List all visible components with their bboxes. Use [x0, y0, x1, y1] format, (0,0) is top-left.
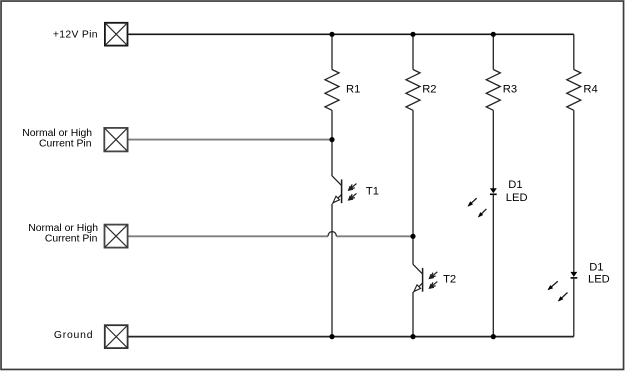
wire column2 T2 emitter to ground [412, 292, 414, 337]
svg-text:D1: D1 [508, 179, 522, 191]
wire column2 top [412, 34, 414, 69]
svg-text:R2: R2 [422, 84, 436, 96]
svg-text:Normal or High: Normal or High [22, 128, 92, 139]
pin P3 box [105, 225, 128, 248]
wire pin3 to node B with hop over column 1 [129, 235, 414, 237]
pin P4 Ground box [105, 325, 128, 348]
wire column1 R1 bottom to T1 collector [331, 110, 333, 176]
svg-text:R3: R3 [503, 84, 517, 96]
wire column4 top [573, 34, 575, 69]
node dot pin3/col2 [410, 234, 415, 239]
node dot top R2 [410, 32, 415, 37]
LED D1 (column 3) [468, 188, 497, 217]
svg-text:T2: T2 [443, 274, 456, 286]
wire column1 T1 emitter to ground [331, 204, 333, 337]
wire hop over column 1 (no connection) [328, 232, 336, 237]
svg-text:Current Pin: Current Pin [39, 138, 92, 149]
wire pin2 to node A [129, 139, 333, 141]
node dot top R3 [491, 32, 496, 37]
wire column2 R2 bottom to T2 collector [412, 110, 414, 264]
pin P2 box [104, 128, 127, 151]
resistor R2 [406, 70, 420, 111]
wire +12V top rail [128, 33, 573, 35]
svg-text:Ground: Ground [54, 330, 93, 341]
svg-text:LED: LED [588, 274, 610, 286]
wire column1 top [331, 34, 333, 69]
LED D1 (column 4) [548, 272, 578, 302]
resistor R4 [567, 70, 581, 111]
svg-text:Current Pin: Current Pin [45, 234, 98, 245]
node dot ground/col2 [410, 334, 415, 339]
node dot ground/col1 [329, 334, 334, 339]
wire column4 R4 bottom to LED D1 [573, 110, 575, 272]
resistor R1 [325, 70, 339, 111]
wire ground rail [129, 336, 574, 338]
svg-text:R1: R1 [346, 84, 360, 96]
wire column4 LED to ground [573, 278, 575, 337]
svg-text:T1: T1 [366, 185, 379, 197]
transistor T2 (phototransistor) [413, 264, 437, 292]
svg-text:Normal or High: Normal or High [28, 223, 98, 234]
node dot pin2/col1 [329, 137, 334, 142]
node dot ground/col3 [491, 334, 496, 339]
svg-text:LED: LED [506, 192, 528, 204]
pin P1 +12V box [105, 23, 128, 46]
wire column3 R3 bottom to LED D1 [492, 110, 494, 188]
wire column3 top [492, 34, 494, 69]
transistor T1 (phototransistor) [332, 176, 357, 204]
node dot top R1 [329, 32, 334, 37]
resistor R3 [486, 70, 500, 111]
svg-text:D1: D1 [589, 261, 603, 273]
svg-text:+12V Pin: +12V Pin [53, 29, 98, 40]
svg-text:R4: R4 [583, 84, 597, 96]
wire column3 LED to ground [492, 194, 494, 336]
